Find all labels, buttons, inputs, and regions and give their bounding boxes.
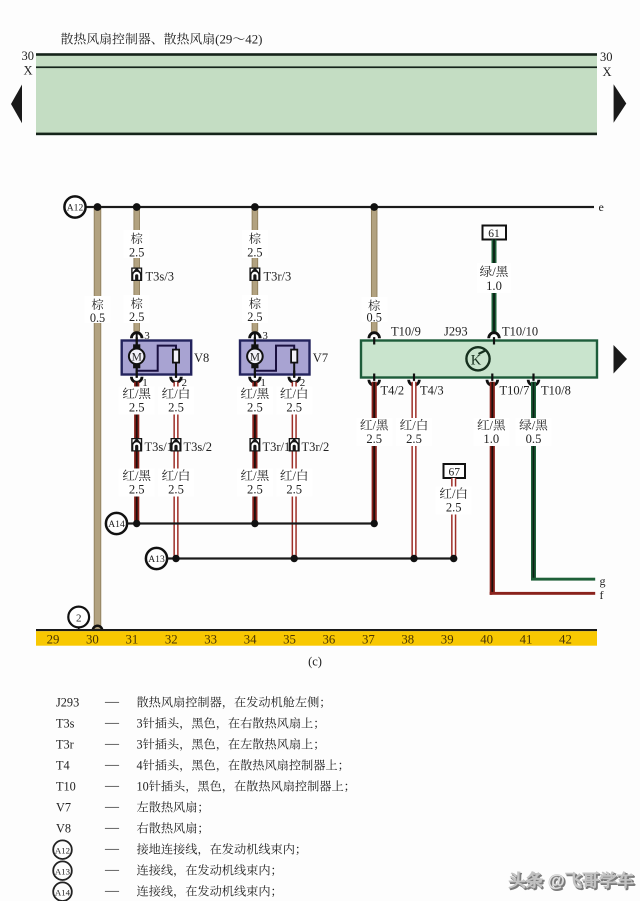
wire V8 pin1 red/black 2.5 bbox=[134, 382, 139, 524]
svg-text:T10/7: T10/7 bbox=[500, 384, 530, 398]
svg-text:A14: A14 bbox=[108, 519, 125, 530]
svg-text:0.5: 0.5 bbox=[90, 311, 105, 325]
junction A13/67 bbox=[450, 555, 457, 562]
connector T3s/2 bbox=[171, 438, 182, 452]
legend row J293 bbox=[56, 695, 332, 710]
wire brown 2.5 to T3r/3 bbox=[252, 207, 258, 331]
svg-text:2.5: 2.5 bbox=[286, 483, 302, 497]
svg-text:红/白: 红/白 bbox=[162, 387, 191, 401]
svg-text:2.5: 2.5 bbox=[366, 432, 382, 446]
svg-text:2.5: 2.5 bbox=[129, 246, 144, 260]
svg-text:红/白: 红/白 bbox=[280, 387, 309, 401]
junction A13/V7 bbox=[291, 555, 298, 562]
label 红/黑 2.5 lower bbox=[237, 469, 273, 497]
svg-text:红/黑: 红/黑 bbox=[241, 469, 270, 483]
terminal 61 box bbox=[483, 226, 507, 240]
svg-text:2.5: 2.5 bbox=[129, 401, 145, 415]
bus continuation arrow left bbox=[11, 85, 22, 124]
svg-text:10针插头，黑色，在散热风扇控制器上；: 10针插头，黑色，在散热风扇控制器上； bbox=[137, 780, 356, 794]
svg-text:2.5: 2.5 bbox=[446, 501, 462, 515]
svg-text:40: 40 bbox=[480, 632, 493, 646]
arrow continuation right of J293 bbox=[614, 345, 628, 374]
svg-text:红/白: 红/白 bbox=[162, 469, 191, 483]
label 红/白 2.5 upper bbox=[158, 387, 194, 415]
svg-text:T3s/1: T3s/1 bbox=[145, 440, 173, 454]
svg-text:e: e bbox=[599, 200, 604, 214]
wire T4/3 red/white 2.5 bbox=[411, 382, 416, 559]
pin T10/7 cup bbox=[487, 380, 498, 386]
svg-text:42: 42 bbox=[559, 632, 572, 646]
svg-text:X: X bbox=[603, 65, 612, 79]
svg-text:—: — bbox=[104, 695, 120, 710]
svg-text:T3s/3: T3s/3 bbox=[146, 270, 174, 284]
bus continuation arrow right bbox=[614, 84, 627, 123]
wire green/black 1.0 from 61 to T10/10 bbox=[492, 240, 497, 333]
junction A14/V8 bbox=[133, 520, 140, 527]
label green/black 1.0 bbox=[477, 263, 511, 293]
label brown 2.5 lower (V8 branch) bbox=[124, 295, 150, 323]
svg-text:J293: J293 bbox=[444, 325, 468, 339]
connector T3s/3 bbox=[131, 268, 142, 282]
svg-text:—: — bbox=[104, 716, 120, 731]
connector cup pin 2 of V7 bbox=[289, 377, 300, 383]
connector T3r/3 bbox=[249, 268, 260, 282]
svg-text:J293: J293 bbox=[56, 696, 79, 710]
legend row T10 bbox=[56, 779, 356, 794]
connection A14 bbox=[106, 513, 127, 534]
svg-text:g: g bbox=[600, 574, 606, 588]
svg-text:30: 30 bbox=[86, 632, 99, 646]
svg-text:A13: A13 bbox=[55, 867, 71, 877]
svg-text:—: — bbox=[104, 884, 120, 899]
svg-text:2.5: 2.5 bbox=[247, 483, 263, 497]
wire V7 pin1 red/black 2.5 bbox=[252, 382, 257, 524]
pin T10/10 cup bbox=[489, 333, 500, 339]
watermark 头条@飞哥学车 bbox=[509, 871, 636, 892]
svg-text:33: 33 bbox=[204, 632, 217, 646]
control unit J293 box bbox=[361, 341, 597, 378]
pin T4/2 cup bbox=[369, 380, 380, 386]
svg-text:2.5: 2.5 bbox=[406, 432, 422, 446]
connection A13 bbox=[146, 548, 167, 569]
svg-text:3: 3 bbox=[262, 330, 268, 342]
pin T10/8 cup bbox=[528, 380, 539, 386]
wire V8 pin2 red/white 2.5 bbox=[173, 382, 178, 559]
wire A13 horizontal bbox=[167, 557, 454, 559]
svg-text:连接线，在发动机线束内；: 连接线，在发动机线束内； bbox=[137, 885, 283, 899]
svg-text:T3r/3: T3r/3 bbox=[264, 270, 292, 284]
label 红/白 2.5 lower bbox=[276, 469, 312, 497]
svg-text:T10/8: T10/8 bbox=[541, 384, 571, 398]
svg-text:红/白: 红/白 bbox=[400, 419, 429, 433]
svg-text:棕: 棕 bbox=[249, 232, 261, 246]
svg-text:2.5: 2.5 bbox=[247, 310, 262, 324]
label 红/黑 2.5 upper bbox=[119, 387, 155, 415]
svg-text:1.0: 1.0 bbox=[486, 279, 502, 293]
label brown 2.5 upper (V8 branch) bbox=[124, 230, 150, 258]
svg-text:A12: A12 bbox=[55, 846, 70, 856]
svg-text:T10: T10 bbox=[56, 780, 76, 794]
legend row V7 bbox=[56, 800, 210, 815]
legend row A13 bbox=[53, 861, 283, 880]
svg-text:—: — bbox=[104, 842, 120, 857]
svg-text:34: 34 bbox=[244, 632, 257, 646]
connector cup pin 3 of V7 bbox=[250, 333, 261, 339]
svg-text:T3r/1: T3r/1 bbox=[263, 440, 291, 454]
svg-text:红/黑: 红/黑 bbox=[241, 387, 270, 401]
svg-text:连接线，在发动机线束内；: 连接线，在发动机线束内； bbox=[137, 864, 283, 878]
svg-text:K: K bbox=[471, 352, 482, 368]
terminal 2 circle bbox=[68, 607, 89, 628]
legend row T4 bbox=[56, 758, 350, 773]
label brown 0.5 (T10/9 branch) bbox=[361, 297, 387, 322]
svg-text:—: — bbox=[104, 758, 120, 773]
wire red/white 2.5 from 67 bbox=[451, 478, 456, 559]
svg-text:36: 36 bbox=[323, 632, 336, 646]
svg-text:T4/2: T4/2 bbox=[381, 384, 405, 398]
svg-text:3针插头，黑色，在左散热风扇上；: 3针插头，黑色，在左散热风扇上； bbox=[137, 738, 326, 752]
svg-text:接地连接线，在发动机线束内；: 接地连接线，在发动机线束内； bbox=[137, 843, 308, 857]
svg-text:T4: T4 bbox=[56, 759, 70, 773]
svg-text:35: 35 bbox=[283, 632, 296, 646]
svg-text:39: 39 bbox=[441, 632, 454, 646]
label 红/黑 2.5 lower bbox=[119, 469, 155, 497]
wire T4/2 red/black 2.5 bbox=[372, 382, 377, 524]
ground connection A12 bbox=[64, 196, 85, 217]
svg-text:67: 67 bbox=[448, 467, 460, 479]
wire V7 pin2 red/white 2.5 bbox=[292, 382, 297, 559]
connector T3r/2 bbox=[289, 438, 300, 452]
connector cup pin 1 of V8 bbox=[131, 377, 142, 383]
svg-text:V7: V7 bbox=[313, 351, 328, 365]
svg-text:—: — bbox=[104, 821, 120, 836]
svg-text:T3s/2: T3s/2 bbox=[184, 440, 212, 454]
svg-text:T10/10: T10/10 bbox=[502, 325, 538, 339]
svg-text:2.5: 2.5 bbox=[129, 483, 145, 497]
svg-text:2.5: 2.5 bbox=[247, 246, 262, 260]
svg-text:棕: 棕 bbox=[131, 297, 143, 311]
svg-text:f: f bbox=[600, 588, 604, 602]
svg-text:2.5: 2.5 bbox=[168, 483, 184, 497]
svg-text:30: 30 bbox=[22, 49, 35, 63]
svg-text:—: — bbox=[104, 800, 120, 815]
svg-text:2.5: 2.5 bbox=[168, 401, 184, 415]
svg-text:T3r/2: T3r/2 bbox=[302, 440, 330, 454]
fan motor V7 bbox=[240, 334, 310, 377]
svg-text:41: 41 bbox=[520, 632, 533, 646]
svg-text:T10/9: T10/9 bbox=[391, 325, 421, 339]
wire brown 2.5 to T3s/3 bbox=[134, 207, 140, 331]
label 红/黑 2.5 upper bbox=[237, 387, 273, 415]
svg-text:29: 29 bbox=[47, 632, 60, 646]
legend row T3r bbox=[56, 737, 325, 752]
power bus band 30/X bbox=[36, 53, 597, 135]
label brown 2.5 lower (V7 branch) bbox=[242, 295, 268, 323]
svg-text:绿/黑: 绿/黑 bbox=[519, 419, 548, 433]
svg-text:散热风扇控制器，在发动机舱左侧；: 散热风扇控制器，在发动机舱左侧； bbox=[137, 696, 332, 710]
svg-text:0.5: 0.5 bbox=[526, 432, 542, 446]
fan motor V8 bbox=[122, 334, 192, 377]
svg-text:棕: 棕 bbox=[131, 232, 143, 246]
svg-text:1.0: 1.0 bbox=[483, 432, 499, 446]
svg-text:T4/3: T4/3 bbox=[420, 384, 444, 398]
svg-text:棕: 棕 bbox=[91, 298, 103, 312]
svg-text:红/黑: 红/黑 bbox=[477, 419, 506, 433]
control unit symbol K bbox=[466, 347, 489, 370]
svg-text:右散热风扇；: 右散热风扇； bbox=[137, 822, 210, 836]
svg-text:散热风扇控制器、散热风扇(29～42): 散热风扇控制器、散热风扇(29～42) bbox=[61, 33, 263, 47]
svg-text:V8: V8 bbox=[56, 822, 71, 836]
svg-text:V8: V8 bbox=[194, 351, 209, 365]
pin T10/9 cup bbox=[369, 333, 380, 339]
svg-text:2.5: 2.5 bbox=[247, 401, 263, 415]
svg-text:M: M bbox=[250, 352, 260, 364]
svg-text:红/黑: 红/黑 bbox=[360, 419, 389, 433]
pin T4/3 cup bbox=[409, 380, 420, 386]
svg-text:绿/黑: 绿/黑 bbox=[480, 265, 509, 279]
legend row A14 bbox=[53, 882, 283, 901]
wire brown 0.5 to T10/9 bbox=[371, 207, 377, 332]
connector T3r/1 bbox=[249, 438, 260, 452]
connector cup pin 2 of V8 bbox=[171, 377, 182, 383]
legend row A12 bbox=[53, 840, 307, 859]
ground wire e (horizontal) bbox=[86, 206, 594, 208]
svg-text:38: 38 bbox=[401, 632, 414, 646]
svg-text:30: 30 bbox=[600, 50, 613, 64]
svg-text:红/黑: 红/黑 bbox=[122, 469, 151, 483]
svg-text:A14: A14 bbox=[55, 888, 71, 898]
junction on e-line at left brown wire bbox=[94, 203, 102, 211]
connector cup pin 1 of V7 bbox=[250, 377, 261, 383]
svg-text:37: 37 bbox=[362, 632, 375, 646]
junction A14/V7 bbox=[251, 520, 258, 527]
wire T10/7 red/black 1.0 to f bbox=[490, 382, 495, 592]
terminal 67 box bbox=[444, 464, 466, 478]
junction A13/V8 bbox=[172, 555, 179, 562]
svg-text:X: X bbox=[23, 64, 32, 78]
svg-text:红/白: 红/白 bbox=[439, 487, 468, 501]
svg-text:3针插头，黑色，在右散热风扇上；: 3针插头，黑色，在右散热风扇上； bbox=[137, 717, 326, 731]
svg-text:A12: A12 bbox=[67, 202, 84, 213]
svg-text:2.5: 2.5 bbox=[286, 401, 302, 415]
svg-text:A13: A13 bbox=[148, 554, 165, 565]
svg-text:—: — bbox=[104, 779, 120, 794]
connector T3s/1 bbox=[131, 438, 142, 452]
svg-text:31: 31 bbox=[125, 632, 138, 646]
connector cup pin 3 of V8 bbox=[131, 333, 142, 339]
svg-text:红/黑: 红/黑 bbox=[122, 387, 151, 401]
wire T10/8 green/black 0.5 to g bbox=[531, 382, 536, 578]
wire A14 horizontal bbox=[127, 522, 374, 524]
label brown 0.5 on left wire bbox=[85, 296, 111, 323]
legend row T3s bbox=[56, 716, 325, 731]
svg-text:(c): (c) bbox=[308, 655, 322, 669]
svg-text:—: — bbox=[104, 737, 120, 752]
svg-text:61: 61 bbox=[488, 228, 500, 240]
legend row V8 bbox=[56, 821, 210, 836]
svg-text:左散热风扇；: 左散热风扇； bbox=[137, 801, 210, 815]
svg-text:T3r: T3r bbox=[56, 738, 74, 752]
svg-text:0.5: 0.5 bbox=[367, 311, 382, 325]
svg-text:T3s: T3s bbox=[56, 717, 75, 731]
label 红/白 2.5 upper bbox=[276, 387, 312, 415]
svg-text:红/白: 红/白 bbox=[280, 469, 309, 483]
svg-text:4针插头，黑色，在散热风扇控制器上；: 4针插头，黑色，在散热风扇控制器上； bbox=[137, 759, 350, 773]
svg-text:—: — bbox=[104, 863, 120, 878]
svg-text:V7: V7 bbox=[56, 801, 71, 815]
svg-text:头条 @飞哥学车: 头条 @飞哥学车 bbox=[509, 871, 635, 891]
label brown 2.5 upper (V7 branch) bbox=[242, 230, 268, 258]
current track band bbox=[36, 629, 597, 646]
connector cup at track 30 bbox=[93, 626, 103, 631]
svg-text:3: 3 bbox=[144, 330, 150, 342]
junction A13/T4-3 bbox=[410, 555, 417, 562]
svg-text:2: 2 bbox=[76, 613, 82, 625]
junction A14/T4-2 bbox=[371, 520, 378, 527]
svg-text:32: 32 bbox=[165, 632, 178, 646]
label 红/白 2.5 lower bbox=[158, 469, 194, 497]
svg-text:棕: 棕 bbox=[249, 297, 261, 311]
svg-text:2.5: 2.5 bbox=[129, 310, 144, 324]
wire brown 0.5 (left long, to terminal 2) bbox=[94, 207, 101, 629]
svg-text:M: M bbox=[132, 352, 142, 364]
